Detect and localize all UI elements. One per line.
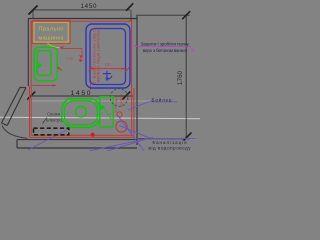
toilet bowl inner bbox=[64, 101, 97, 125]
washing machine label box red border bbox=[32, 21, 70, 44]
red dim lower: arrow bbox=[53, 84, 57, 87]
red dim lower: line bbox=[32, 84, 56, 86]
svg-text:Каналізація: Каналізація bbox=[153, 140, 188, 145]
toilet tank mark bbox=[101, 105, 105, 110]
svg-text:1760: 1760 bbox=[177, 70, 184, 85]
svg-text:верх з бетоном ванної: верх з бетоном ванної bbox=[143, 48, 188, 53]
canalization leader 2 bbox=[119, 117, 144, 151]
dimension 1450 top: right extension bbox=[130, 10, 132, 21]
red leader from label bbox=[64, 47, 83, 49]
red arrow near machine right bbox=[58, 68, 63, 71]
red dashed vertical bbox=[115, 96, 117, 113]
dimension 1760 right: line bbox=[185, 15, 187, 139]
violet leader bottom-left bbox=[28, 128, 70, 150]
bathtub dim 700 arrows bbox=[90, 68, 94, 70]
canalization leader 4 bbox=[107, 139, 149, 152]
dimension 1450 top: line bbox=[33, 9, 130, 11]
drain symbol bbox=[103, 71, 112, 80]
svg-text:1450: 1450 bbox=[71, 90, 91, 97]
washing machine label box yellow border bbox=[34, 22, 68, 42]
red lower zone left bbox=[29, 86, 31, 138]
wall bottom inner bbox=[17, 139, 137, 141]
svg-text:від водопроводу: від водопроводу bbox=[149, 146, 192, 151]
bathtub outer bbox=[86, 24, 130, 88]
toilet tank bbox=[100, 97, 113, 127]
canalization leader 3 bbox=[89, 138, 153, 152]
bathtub dim 700 line bbox=[91, 68, 126, 70]
bathtub inner bbox=[90, 29, 126, 85]
towel dryer leader bbox=[43, 118, 48, 124]
magenta leader bath note bbox=[131, 46, 141, 47]
svg-text:електро.: електро. bbox=[46, 117, 63, 122]
dimension 1450 lower: left tick bbox=[27, 92, 35, 100]
boiler big circle bbox=[116, 121, 127, 132]
svg-text:700: 700 bbox=[105, 63, 111, 67]
door leaf bbox=[2, 88, 20, 124]
red ext near tub left bbox=[90, 80, 92, 90]
dashed towel dryer bbox=[34, 128, 69, 135]
svg-text:Сушка: Сушка bbox=[47, 112, 61, 117]
toilet bowl circle bbox=[76, 106, 87, 117]
red lower zone right bbox=[133, 88, 135, 137]
dimension 1760 right: bottom extension bbox=[138, 138, 190, 140]
dimension 1760 right: top tick bbox=[182, 11, 190, 19]
centerline gray bbox=[31, 100, 150, 102]
canalization landing bbox=[151, 138, 196, 140]
wall bottom outer bbox=[17, 147, 137, 149]
wall top bbox=[28, 18, 137, 20]
dimension 1450 top: left extension bbox=[32, 10, 34, 18]
dimension 1760 right: top extension bbox=[136, 14, 189, 16]
washing machine hinge triangle bbox=[38, 63, 43, 68]
boiler small circle bbox=[117, 112, 122, 117]
dimension 1450 top: right tick bbox=[126, 3, 133, 10]
washing machine outline bbox=[34, 47, 57, 80]
dashed boiler circle above bbox=[110, 89, 128, 107]
wall left bbox=[27, 19, 29, 87]
red drain dot bbox=[91, 133, 95, 137]
boiler label leader bbox=[128, 102, 149, 110]
wall right bbox=[136, 15, 138, 145]
dimension 1760 right: bottom tick bbox=[184, 133, 192, 141]
svg-text:Прально: Прально bbox=[39, 27, 64, 33]
svg-text:машинка: машинка bbox=[39, 36, 65, 42]
dimension 1450 lower: line bbox=[31, 95, 133, 97]
washing machine door bbox=[37, 51, 51, 76]
section line white bbox=[0, 117, 200, 119]
yellow leader to machine bbox=[48, 44, 60, 48]
red lower zone bottom bbox=[30, 136, 134, 138]
svg-text:= 80: = 80 bbox=[90, 81, 96, 85]
canalization leader 1 bbox=[120, 126, 151, 139]
dimension 1450 lower: right tick bbox=[122, 92, 130, 100]
yellow leader arrowhead bbox=[60, 46, 64, 50]
svg-text:1.20: 1.20 bbox=[66, 57, 73, 61]
svg-text:ВЕНЕСО ТАЦІА 100Х70 бел: ВЕНЕСО ТАЦІА 100Х70 бел bbox=[96, 30, 100, 82]
door swing arc bbox=[2, 126, 28, 139]
svg-text:1450: 1450 bbox=[81, 3, 98, 10]
svg-text:Бойлер: Бойлер bbox=[152, 97, 173, 102]
wall bottom left cap bbox=[16, 140, 18, 148]
svg-text:Зашити і зробити полку: Зашити і зробити полку bbox=[141, 41, 190, 46]
svg-text:вивід 50: вивід 50 bbox=[119, 94, 123, 107]
red renovation outline rect bbox=[31, 21, 131, 135]
toilet bowl outer bbox=[62, 98, 100, 127]
dimension 1450 top: left tick bbox=[29, 6, 38, 15]
